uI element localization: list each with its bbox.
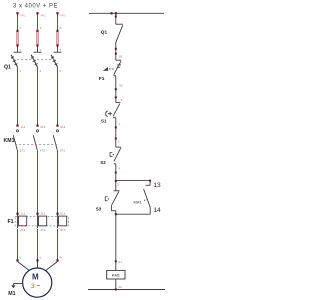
svg-text:S2: S2 <box>100 160 106 165</box>
svg-text:5L3: 5L3 <box>60 212 65 216</box>
svg-text:S1: S1 <box>101 119 107 124</box>
svg-text:2T1: 2T1 <box>20 148 26 152</box>
svg-text:V: V <box>39 255 41 259</box>
svg-text:6T3: 6T3 <box>60 148 66 152</box>
svg-text:1L1: 1L1 <box>20 125 25 129</box>
svg-text:13: 13 <box>153 182 161 189</box>
svg-text:5L3: 5L3 <box>60 125 65 129</box>
svg-text:U: U <box>19 255 21 259</box>
svg-text:3L2: 3L2 <box>40 125 45 129</box>
svg-text:W: W <box>59 255 62 259</box>
svg-text:Q1: Q1 <box>101 30 108 36</box>
svg-text:2T1: 2T1 <box>20 228 26 232</box>
svg-text:PH2: PH2 <box>41 14 47 18</box>
svg-text:1L1: 1L1 <box>20 212 25 216</box>
svg-text:Q1: Q1 <box>4 64 11 70</box>
svg-text:14: 14 <box>153 207 161 214</box>
svg-text:KM1: KM1 <box>4 138 15 144</box>
svg-text:3: 3 <box>31 283 35 290</box>
svg-text:M1: M1 <box>8 291 15 297</box>
svg-text:A2: A2 <box>118 285 122 289</box>
svg-text:6T3: 6T3 <box>60 228 66 232</box>
svg-text:95: 95 <box>119 55 123 59</box>
svg-text:S3: S3 <box>96 206 102 211</box>
svg-text:4T2: 4T2 <box>40 148 46 152</box>
svg-text:KM1: KM1 <box>112 273 121 278</box>
svg-text:~: ~ <box>37 283 41 290</box>
svg-text:PH1: PH1 <box>21 14 27 18</box>
svg-text:F1: F1 <box>99 76 105 82</box>
svg-text:4T2: 4T2 <box>40 228 46 232</box>
svg-text:A1: A1 <box>118 260 122 264</box>
svg-text:96: 96 <box>119 84 123 88</box>
svg-text:KM1: KM1 <box>134 199 143 204</box>
svg-text:3L2: 3L2 <box>40 212 45 216</box>
svg-text:3 x 400V + PE: 3 x 400V + PE <box>13 4 58 10</box>
svg-text:PH3: PH3 <box>61 14 67 18</box>
svg-text:F1: F1 <box>8 219 14 225</box>
svg-text:M: M <box>32 273 39 282</box>
